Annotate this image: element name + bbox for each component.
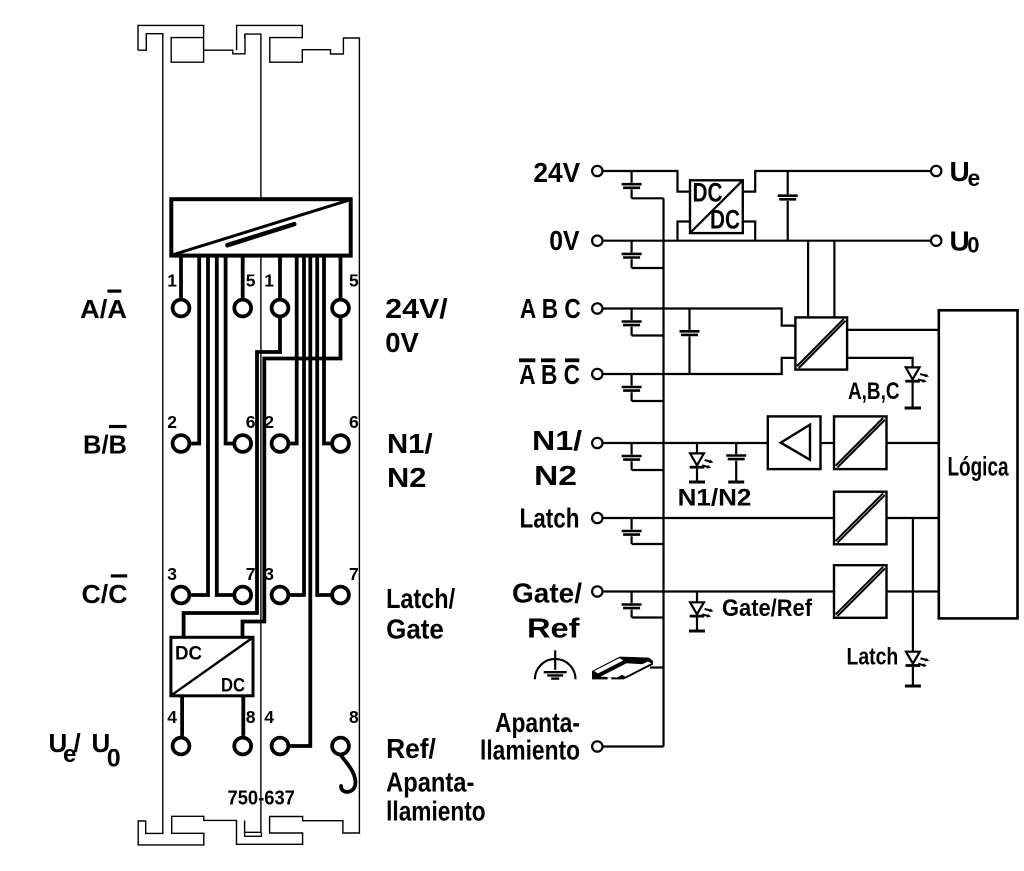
svg-text:4: 4 bbox=[167, 707, 177, 727]
terminal Latch bbox=[592, 513, 602, 523]
svg-text:A/A: A/A bbox=[80, 294, 127, 324]
label Latch/ Gate (module right) bbox=[386, 583, 455, 645]
svg-text:Latch: Latch bbox=[520, 503, 580, 534]
capacitor C1 on 24V bbox=[622, 171, 664, 198]
svg-text:2: 2 bbox=[167, 412, 177, 432]
input terminal circles bbox=[592, 166, 941, 752]
terminal 5b bbox=[332, 300, 349, 317]
label Ue/U0 bbox=[49, 728, 121, 773]
terminal 4b bbox=[272, 738, 289, 755]
svg-text:6: 6 bbox=[349, 412, 359, 432]
module outline top-left foot bbox=[138, 25, 204, 62]
wire box to terminal 1b bbox=[278, 256, 282, 298]
RIGHT SCHEMATIC bbox=[603, 171, 939, 747]
label A-bar B-bar C-bar bbox=[519, 358, 580, 390]
terminal pin numbers bbox=[167, 271, 359, 728]
svg-text:0: 0 bbox=[967, 233, 979, 258]
capacitor C9 on Latch bbox=[622, 518, 664, 544]
wire box to terminal 7 bbox=[217, 256, 233, 595]
svg-text:6: 6 bbox=[246, 412, 256, 432]
module bottom middle inner rect bbox=[245, 821, 262, 837]
svg-text:3: 3 bbox=[264, 564, 274, 584]
wire N1 isolator to logic bbox=[887, 442, 939, 444]
wire DIN rail to bus bbox=[650, 666, 664, 668]
wire Latch to isolator bbox=[603, 517, 835, 519]
module middle separator line lower segment bbox=[260, 256, 262, 833]
terminal ABC-bar bbox=[592, 369, 602, 379]
wire ABC isolator to logic bbox=[847, 329, 939, 331]
svg-text:24V: 24V bbox=[533, 157, 580, 188]
wire ABC isolator to LED A,B,C bbox=[847, 358, 913, 368]
isolation barrier box (module) bbox=[171, 199, 350, 255]
terminal 5 bbox=[234, 300, 251, 317]
wire 24V to DC/DC bbox=[603, 171, 691, 192]
terminal Gate/Ref bbox=[592, 586, 602, 596]
label C/C-bar bbox=[82, 574, 128, 609]
label Apanta- llamiento bbox=[480, 707, 580, 766]
terminal 3 bbox=[173, 587, 190, 604]
module outline left notch and left edge and bottom and right edge and top-middle T bbox=[138, 25, 359, 845]
logic block Logica bbox=[939, 310, 1018, 618]
wire U0 rail to ABC isolator pin 1 bbox=[807, 241, 809, 318]
svg-text:8: 8 bbox=[246, 707, 256, 727]
label A/A-bar bbox=[80, 290, 127, 325]
wire terminal 5b to DC/DC input bbox=[243, 318, 341, 637]
wire A B C to isolator bbox=[603, 309, 796, 326]
svg-text:DC: DC bbox=[710, 205, 740, 235]
terminal 7 bbox=[234, 587, 251, 604]
wire A-bar B-bar C-bar to isolator bbox=[603, 358, 796, 374]
wire box to terminal 3 bbox=[191, 256, 208, 595]
label N1/ N2 (module right) bbox=[387, 428, 433, 493]
svg-text:llamiento: llamiento bbox=[480, 735, 580, 766]
svg-text:C/C: C/C bbox=[82, 579, 128, 609]
svg-text:Gate/Ref: Gate/Ref bbox=[722, 595, 813, 622]
terminal Ue bbox=[931, 166, 941, 176]
capacitor C7 on N1 bbox=[622, 443, 664, 470]
terminal 3b bbox=[272, 587, 289, 604]
svg-text:Gate: Gate bbox=[386, 613, 444, 644]
isolator Latch bbox=[834, 492, 887, 545]
wire box to terminal 5b bbox=[339, 256, 343, 298]
svg-text:DC: DC bbox=[175, 643, 202, 664]
terminal 0V bbox=[592, 236, 602, 246]
LED N1/N2 bbox=[689, 443, 705, 482]
wire DC/DC to terminal 8 bbox=[241, 696, 245, 736]
svg-text:N1/N2: N1/N2 bbox=[678, 485, 752, 512]
isolator Gate bbox=[834, 565, 887, 618]
comparator box bbox=[768, 416, 821, 469]
svg-text:Ref/: Ref/ bbox=[386, 733, 436, 764]
svg-text:3: 3 bbox=[167, 564, 177, 584]
svg-text:A B C: A B C bbox=[520, 293, 581, 324]
svg-text:7: 7 bbox=[246, 564, 256, 584]
svg-text:7: 7 bbox=[349, 564, 359, 584]
terminal 1 bbox=[173, 300, 190, 317]
svg-text:N1/: N1/ bbox=[532, 425, 582, 456]
terminal 1b bbox=[272, 300, 289, 317]
terminal 8 bbox=[234, 738, 251, 755]
svg-text:0V: 0V bbox=[549, 225, 580, 256]
svg-text:5: 5 bbox=[349, 271, 359, 291]
capacitor C10 on Gate bbox=[622, 592, 664, 618]
svg-text:0: 0 bbox=[107, 745, 121, 773]
terminal ABC bbox=[592, 303, 602, 313]
svg-text:e: e bbox=[968, 165, 981, 191]
terminal 7b bbox=[332, 587, 349, 604]
LED Gate/Ref bbox=[689, 592, 705, 632]
capacitor C8 on N1 to common bbox=[726, 443, 746, 482]
svg-text:Apanta-: Apanta- bbox=[495, 707, 580, 738]
isolator N1 bbox=[834, 416, 887, 469]
wire 0V rail to U0 bbox=[603, 240, 932, 242]
svg-text:N2: N2 bbox=[387, 462, 426, 493]
shield pigtail hook at terminal 8b bbox=[341, 756, 355, 792]
terminal 24V bbox=[592, 166, 602, 176]
wire Gate isolator to logic bbox=[887, 590, 939, 592]
wire box to terminal 2 bbox=[191, 256, 199, 444]
wire Latch isolator to logic bbox=[887, 517, 939, 519]
shield bus bbox=[662, 198, 664, 746]
wire latch node to LED Latch bbox=[912, 518, 914, 652]
terminal 2 bbox=[173, 435, 190, 452]
wire comparator to N1 isolator bbox=[821, 442, 835, 444]
svg-text:B/B: B/B bbox=[83, 430, 127, 460]
wire box to terminal 7b bbox=[317, 256, 330, 595]
label 24V/ 0V (module right) bbox=[385, 293, 448, 358]
svg-text:A,B,C: A,B,C bbox=[848, 378, 900, 405]
svg-text:Lógica: Lógica bbox=[948, 452, 1010, 482]
module middle top stub bbox=[244, 34, 246, 38]
DIN rail symbol bbox=[592, 657, 653, 680]
svg-text:N2: N2 bbox=[534, 460, 577, 491]
label Gate/ Ref bbox=[512, 578, 582, 644]
svg-text:0V: 0V bbox=[385, 327, 419, 358]
DC/DC converter (module) bbox=[171, 637, 253, 696]
wires from isolation box to terminals bbox=[181, 256, 355, 792]
svg-text:A B C: A B C bbox=[519, 359, 580, 390]
wire box to terminal 1 bbox=[179, 256, 183, 298]
wire N1 to comparator bbox=[603, 442, 768, 444]
wire Apantallamiento to bus bbox=[603, 745, 664, 747]
wire U0 rail to ABC isolator pin 2 bbox=[833, 241, 835, 318]
LEFT-MODULE bbox=[138, 25, 359, 845]
terminal 2b bbox=[272, 435, 289, 452]
label N1/ N2 bbox=[532, 425, 582, 491]
capacitor C5 on ABC-bar bbox=[622, 374, 664, 401]
terminal 6 bbox=[234, 435, 251, 452]
isolator ABC bbox=[795, 317, 847, 369]
svg-text:Apanta-: Apanta- bbox=[386, 767, 474, 798]
label U0 bbox=[950, 226, 980, 258]
module top connector step bbox=[204, 34, 261, 199]
svg-text:N1/: N1/ bbox=[387, 428, 433, 459]
wire box to terminal 2b bbox=[290, 256, 297, 444]
ground symbol bbox=[535, 650, 576, 679]
terminal 4 bbox=[173, 738, 190, 755]
LED Latch bbox=[905, 652, 921, 686]
wire box to terminal 4b bbox=[290, 256, 310, 746]
terminal U0 bbox=[931, 236, 941, 246]
svg-text:llamiento: llamiento bbox=[386, 796, 486, 827]
terminal 8b bbox=[332, 738, 349, 755]
svg-text:2: 2 bbox=[264, 412, 274, 432]
svg-text:Gate/: Gate/ bbox=[512, 578, 582, 609]
capacitor C2 on 0V bbox=[622, 241, 664, 268]
terminal Apantallamiento bbox=[592, 741, 602, 751]
svg-text:DC: DC bbox=[221, 676, 245, 697]
terminal N1/N2 bbox=[592, 438, 602, 448]
wire box to terminal 5 bbox=[241, 256, 245, 298]
svg-text:/: / bbox=[74, 728, 81, 758]
svg-text:Latch: Latch bbox=[847, 644, 899, 671]
wire box to terminal 3b bbox=[290, 256, 304, 595]
LED A,B,C bbox=[905, 367, 921, 408]
svg-text:4: 4 bbox=[264, 707, 274, 727]
wire DC/DC out to Ue bbox=[743, 171, 931, 192]
wire Gate/Ref to isolator bbox=[603, 590, 835, 592]
svg-text:Latch/: Latch/ bbox=[386, 583, 455, 614]
terminal 6b bbox=[332, 435, 349, 452]
svg-text:1: 1 bbox=[167, 271, 177, 291]
wire DC/DC out to U0 rail bbox=[743, 222, 755, 241]
capacitor C4 on ABC bbox=[622, 309, 664, 336]
label Ref/ Apanta- llamiento (module right) bbox=[386, 733, 486, 827]
wire box to terminal 6b bbox=[324, 256, 330, 444]
svg-text:1: 1 bbox=[264, 271, 274, 291]
svg-text:24V/: 24V/ bbox=[385, 293, 448, 324]
svg-text:Ref: Ref bbox=[527, 613, 580, 644]
label B/B-bar bbox=[83, 425, 127, 460]
capacitor C6 between ABC lines bbox=[680, 309, 700, 375]
wire DC/DC to terminal 4 bbox=[180, 696, 184, 736]
svg-text:8: 8 bbox=[349, 707, 359, 727]
wire 0V to DC/DC bbox=[678, 222, 691, 241]
capacitor C3 filter Ue/U0 bbox=[778, 171, 798, 241]
wire box to terminal 6 bbox=[226, 256, 233, 444]
svg-text:5: 5 bbox=[246, 271, 256, 291]
label Ue bbox=[950, 156, 981, 191]
svg-text:DC: DC bbox=[693, 178, 723, 208]
terminal circles left module bbox=[173, 300, 349, 755]
wire terminal 1b to DC/DC input bbox=[184, 318, 280, 637]
svg-text:750-637: 750-637 bbox=[228, 788, 295, 810]
DC/DC converter (schematic) bbox=[690, 178, 743, 235]
